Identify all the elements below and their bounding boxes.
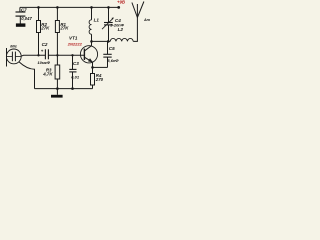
svg-text:270: 270 [95, 77, 104, 82]
capacitor C5 [103, 41, 111, 67]
wire bottom ground bus [35, 88, 93, 90]
wire mic ground lead [19, 62, 34, 89]
svg-text:27K: 27K [59, 26, 69, 31]
wire emitter to C5 [93, 66, 108, 68]
svg-text:C2: C2 [42, 42, 48, 47]
svg-text:Ант: Ант [143, 18, 150, 22]
capacitor C4 (trimmer) [102, 7, 114, 41]
wire tank node [92, 40, 111, 42]
wire C2 to base [48, 54, 84, 56]
node rail-R2 [37, 6, 40, 9]
svg-text:10мкФ: 10мкФ [37, 60, 50, 65]
wire mic output to C2 [21, 54, 45, 57]
node collector-tank [90, 40, 93, 43]
ground (under C7) [16, 23, 26, 26]
svg-text:0,01: 0,01 [71, 74, 80, 79]
svg-text:L2: L2 [118, 27, 124, 32]
node ground-R3 [56, 87, 59, 90]
svg-text:C7: C7 [21, 7, 27, 12]
node rail-R1 [56, 6, 59, 9]
svg-text:0,047: 0,047 [21, 16, 32, 21]
microphone Mic [6, 48, 21, 67]
svg-text:C5: C5 [109, 46, 115, 51]
ground (bottom) [51, 89, 63, 98]
capacitor C7 [16, 7, 26, 23]
node rail end terminal [117, 6, 120, 9]
svg-text:27K: 27K [40, 26, 50, 31]
node rail-C4 [107, 6, 110, 9]
svg-text:+9В: +9В [117, 0, 125, 5]
antenna [132, 2, 144, 18]
inductor L1 [89, 7, 91, 41]
transistor VT1 [80, 41, 97, 67]
resistor R3 [55, 55, 60, 88]
capacitor C2 [45, 49, 48, 59]
node tank-C4-C5 [107, 40, 110, 43]
background [0, 0, 150, 100]
node base-R1 [56, 54, 58, 56]
resistor R4 [91, 67, 95, 88]
wire top +9V rail [20, 6, 119, 8]
node rail-L1 [90, 6, 93, 9]
node mic-R2 [37, 54, 39, 56]
svg-text:5,6пФ: 5,6пФ [107, 58, 119, 63]
node ground-C3 [71, 87, 74, 90]
wire to antenna [133, 18, 137, 42]
svg-text:2N2222: 2N2222 [67, 42, 83, 47]
svg-text:Mic: Mic [10, 43, 17, 48]
resistor R2 [37, 7, 41, 55]
svg-text:L1: L1 [94, 18, 100, 23]
node emitter [91, 66, 94, 69]
node base-C3 [71, 54, 73, 56]
svg-text:VT1: VT1 [69, 36, 78, 41]
svg-text:4,7K: 4,7K [42, 72, 53, 77]
capacitor C3 [69, 55, 76, 88]
inductor L2 [110, 38, 133, 41]
resistor R1 [55, 7, 59, 55]
svg-text:C3: C3 [73, 61, 79, 66]
